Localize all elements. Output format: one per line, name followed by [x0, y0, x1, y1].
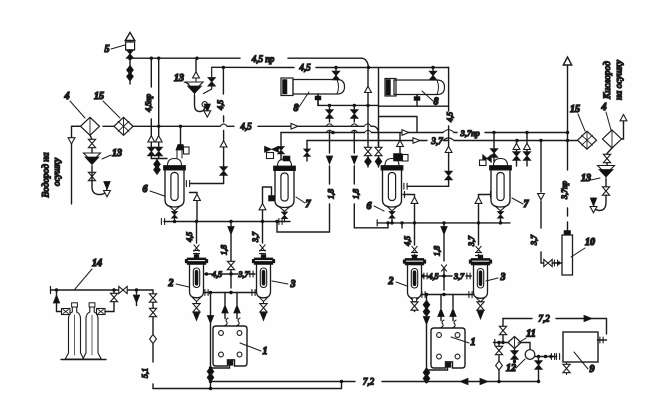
dryer vessel 7a: [274, 159, 296, 222]
gas bottle b: [83, 303, 101, 359]
tank 9 right flange: [598, 339, 607, 341]
filter vessel 3r: [469, 255, 492, 303]
valve column 7a x307: [306, 141, 308, 149]
node R4: [497, 380, 500, 383]
purge valve below node: [129, 59, 131, 84]
svg-text:4: 4: [601, 102, 607, 113]
node X6: [442, 293, 445, 296]
wire riser x152: [150, 58, 152, 136]
wire 5,1 column: [152, 290, 154, 389]
svg-text:10: 10: [585, 237, 595, 248]
wire 7,2 line: [211, 381, 539, 383]
arrow oxygen out up: [620, 115, 627, 121]
svg-text:4,5: 4,5: [299, 63, 311, 73]
node N3: [425, 368, 428, 371]
svg-text:4,5: 4,5: [446, 112, 455, 122]
relief 5 lower fitting: [129, 50, 131, 58]
wire 4,5 riser to 6b right nozzle: [448, 141, 450, 147]
valve column 7b x528: [526, 133, 528, 144]
svg-text:1,8: 1,8: [220, 245, 229, 255]
svg-text:12: 12: [506, 363, 516, 374]
node X2: [209, 291, 212, 294]
pump 12: [521, 343, 530, 350]
inlet valve on 6a: [180, 126, 182, 144]
valve x152: [148, 147, 155, 155]
wire riser to filter 3r: [479, 195, 490, 256]
node P2: [492, 131, 495, 134]
node R0: [497, 341, 500, 344]
wire riser x223: [222, 68, 224, 123]
drain 8a: [317, 94, 319, 105]
svg-text:14: 14: [92, 258, 102, 269]
svg-text:на осушку: на осушку: [615, 59, 625, 100]
arrow trap right: [590, 198, 596, 206]
check above separator 13 center: [193, 72, 200, 78]
black fitting on 7a dome: [283, 156, 290, 161]
wire riser to filter 2: [196, 222, 198, 255]
drain filter 2: [196, 302, 198, 305]
wire riser to filter 3: [262, 222, 264, 254]
pipe hop at x448 over 3,7: [443, 138, 454, 141]
node N1: [209, 366, 212, 369]
svg-text:3,7: 3,7: [453, 272, 465, 281]
wire header1 wrap to 1,8 riser: [277, 222, 330, 233]
node L1: [328, 104, 331, 107]
valve on 8a: [335, 68, 337, 80]
wire riser to filter 2r: [403, 195, 415, 256]
node P3: [525, 131, 528, 134]
dryer vessel 7b: [490, 159, 512, 222]
svg-text:3: 3: [500, 272, 506, 283]
electrolyser 1 right: [431, 328, 465, 368]
svg-text:13: 13: [581, 173, 591, 184]
inlet valve block 6b: [394, 154, 403, 162]
wire crossline lower left y=292.5: [204, 292, 257, 294]
wire loop left side x378: [378, 68, 380, 147]
wire notch link right: [427, 368, 448, 370]
check to dome 6a: [154, 160, 161, 169]
flow arrow on 3,7 line: [413, 138, 420, 144]
flow arrow right on main line: [291, 124, 298, 130]
svg-text:7: 7: [524, 199, 530, 210]
svg-text:6: 6: [367, 201, 372, 212]
svg-text:Кислород: Кислород: [602, 61, 613, 100]
purge valve 13 center: [208, 78, 215, 86]
drain column left x210: [210, 293, 212, 389]
vent arrow top right: [567, 66, 569, 133]
wire riser xb to header2: [354, 223, 388, 228]
svg-text:3,7: 3,7: [238, 270, 250, 279]
arrow hydrogen out down: [68, 138, 75, 144]
node below 11: [513, 360, 516, 363]
node M1: [157, 125, 160, 128]
svg-text:3,7: 3,7: [251, 231, 260, 243]
wire 7,2 recirculation top: [503, 319, 607, 335]
wire riser x223 lower: [223, 131, 225, 141]
wire 1,8 center drop left: [230, 222, 232, 289]
feed pipes electrolyser left: [225, 293, 237, 319]
pipe hops xa: [326, 124, 333, 133]
svg-text:осушку: осушку: [53, 157, 63, 186]
separator 13 right: [598, 166, 615, 180]
filter diamond 4 right: [603, 130, 622, 148]
svg-text:1,8: 1,8: [433, 246, 442, 256]
node H2b: [400, 221, 403, 224]
svg-text:2: 2: [388, 276, 394, 287]
node H1: [173, 220, 176, 223]
svg-text:4,5 пр: 4,5 пр: [252, 54, 275, 64]
ground line: [61, 359, 106, 361]
node N2: [209, 380, 212, 383]
svg-text:15: 15: [94, 91, 104, 102]
svg-text:4,5: 4,5: [212, 270, 222, 279]
svg-text:4,5: 4,5: [403, 236, 412, 246]
wire recirc left leg: [502, 319, 504, 343]
svg-text:Водород на: Водород на: [41, 152, 52, 197]
svg-text:1: 1: [471, 337, 476, 348]
inlet check 6b: [399, 133, 401, 141]
electrolyser 1 left: [213, 326, 247, 366]
drying column 10: [562, 235, 573, 275]
arrow left on 7,2 line: [460, 378, 468, 384]
wire hydrogen outlet corner: [72, 126, 81, 137]
node G1: [55, 288, 58, 291]
filter vessel 2: [185, 255, 208, 303]
arrow right on 7,2 line: [480, 378, 488, 384]
svg-text:7,2: 7,2: [538, 314, 550, 324]
node L2: [353, 104, 356, 107]
dryer vessel 6b: [381, 159, 403, 222]
svg-text:4,5: 4,5: [240, 121, 252, 131]
node A3: [195, 57, 198, 60]
wire 3,7 feed to 10: [541, 141, 544, 264]
node H9: [477, 221, 480, 224]
node X3: [229, 291, 232, 294]
receiver cylinder 8a: [281, 78, 293, 96]
purge riser from separator 13: [204, 67, 212, 93]
svg-text:8: 8: [294, 103, 299, 114]
relief box on 7b: [483, 155, 491, 162]
stub at 402: [401, 223, 403, 228]
node G2: [112, 288, 115, 291]
check column 7a left nozzle: [263, 187, 272, 222]
wire crossline upper left y=274: [205, 273, 256, 275]
svg-text:4,5пр: 4,5пр: [144, 94, 153, 112]
node A2: [157, 57, 160, 60]
check valve x223: [220, 141, 227, 147]
svg-text:11: 11: [526, 329, 535, 340]
wire drop to separator 13 center: [195, 58, 197, 72]
wire pump to tank 9: [535, 356, 557, 358]
wire 4,5 line B y=67.5: [212, 66, 294, 68]
node B2: [367, 66, 370, 69]
tank 9: [563, 332, 598, 362]
wire bottle b to manifold: [105, 290, 114, 312]
wire manifold to vessel 6a: [151, 159, 167, 161]
wire riser to dryer 10: [567, 133, 569, 231]
filter vessel 2r: [403, 255, 426, 303]
wire cylinder manifold y=290: [51, 289, 154, 291]
valve below 11: [514, 349, 516, 362]
flow arrow on 3,7pr line: [402, 130, 409, 136]
svg-text:3: 3: [290, 279, 296, 290]
wire bottom return line: [153, 382, 342, 389]
node P4: [566, 131, 569, 134]
node H4: [261, 220, 264, 223]
node X5: [425, 293, 428, 296]
valve column 7b x517: [516, 141, 518, 144]
valve below diamond 4 right: [607, 148, 612, 166]
receiver cylinder 8b: [385, 79, 396, 97]
drying column 10 cap: [564, 231, 571, 236]
wire 1,8 center drop right: [443, 223, 445, 290]
svg-text:7: 7: [306, 199, 312, 210]
node R3: [537, 380, 540, 383]
pipe hops xb: [351, 124, 358, 133]
valve column 6b x379: [378, 133, 380, 148]
arrow trap center: [204, 104, 210, 112]
node X0: [205, 272, 208, 275]
bottle b fitting: [97, 309, 106, 315]
valve below diamond 4: [90, 135, 92, 153]
nozzle block 7a: [269, 196, 276, 202]
trap center: [195, 96, 206, 112]
node H6: [390, 221, 393, 224]
svg-text:13: 13: [174, 73, 184, 84]
node under 5: [128, 57, 131, 60]
wire cylinder bottoms link y=105.5: [318, 95, 449, 106]
valve column 6b x367: [367, 93, 369, 148]
valve below separator right: [602, 187, 609, 195]
gas bottle a: [65, 303, 83, 359]
wire main 4,5 line y=126.3: [72, 125, 85, 127]
node at 10 inlet: [557, 261, 560, 264]
wire riser x538: [538, 357, 540, 382]
manifold valve: [119, 286, 127, 293]
svg-text:9: 9: [590, 364, 595, 375]
tank 9 left flange: [556, 354, 559, 360]
pipe hop at x448 over 3,7pr: [443, 130, 454, 133]
node Q1: [515, 139, 518, 142]
svg-text:7,2: 7,2: [363, 377, 375, 387]
valve x223: [220, 167, 227, 175]
arrow trap left: [104, 182, 110, 190]
wire 4,5pr header line A y=58: [130, 57, 240, 59]
node H10: [499, 221, 502, 224]
node H2: [195, 220, 198, 223]
node Q2: [539, 139, 542, 142]
svg-text:3,7: 3,7: [530, 234, 539, 246]
vent stub x140: [136, 290, 138, 294]
node P1: [331, 131, 334, 134]
wire oxygen outlet: [622, 121, 624, 139]
svg-text:2: 2: [168, 278, 174, 289]
svg-text:5,1: 5,1: [141, 368, 150, 378]
svg-text:5: 5: [105, 44, 110, 55]
wire header2: [377, 222, 510, 224]
svg-text:3,7: 3,7: [467, 235, 476, 247]
node H5: [275, 220, 278, 223]
separator 13 left: [84, 153, 101, 167]
check valve x161: [155, 136, 162, 142]
wire 3,7pr line y=132.5: [281, 132, 568, 134]
relief valve 5 vent triangle: [125, 33, 135, 41]
filter diamond 4 left: [81, 117, 100, 135]
drain filter 2r: [412, 298, 416, 302]
svg-text:4: 4: [64, 91, 70, 102]
check column 6a right: [190, 193, 198, 222]
node H2a: [386, 221, 389, 224]
pipe hops xc: [364, 124, 372, 133]
node H7: [413, 221, 416, 224]
node bottom: [209, 387, 212, 390]
svg-text:4,5: 4,5: [185, 232, 194, 242]
drain filter 3r: [480, 301, 482, 303]
svg-text:13: 13: [112, 148, 122, 159]
arrow right on recirc: [584, 315, 592, 321]
relief valve 5 body: [126, 42, 135, 50]
relief box on 7a: [265, 146, 279, 152]
flange at 10 inlet: [554, 260, 557, 266]
wire crossline lower right y=294.5: [421, 294, 474, 296]
svg-text:3,7пр: 3,7пр: [560, 181, 569, 200]
wire bottle a to manifold: [57, 290, 62, 312]
node B3: [431, 66, 434, 69]
node A1: [150, 57, 153, 60]
wire to flange left: [494, 342, 509, 344]
flange header2 start: [376, 220, 378, 226]
wire 1,8 riser xa down: [329, 105, 331, 232]
svg-text:15: 15: [570, 104, 580, 115]
svg-text:6: 6: [143, 184, 148, 195]
valve column 7a left x281: [280, 133, 282, 147]
wire notch link left: [211, 366, 230, 368]
flange end header1: [279, 219, 282, 225]
drain filter 3: [263, 302, 265, 305]
drain trap left: [92, 181, 107, 195]
valve column 7b x494: [493, 133, 495, 149]
wire crossline upper right y=276: [424, 275, 472, 277]
wire header1: [164, 221, 290, 223]
drain riser x499: [498, 343, 500, 382]
feed pipes electrolyser right: [441, 295, 453, 321]
valve on 8b: [432, 68, 434, 81]
node N4: [425, 380, 428, 383]
svg-text:1: 1: [263, 346, 268, 357]
trap center float: [202, 102, 207, 107]
wire to vessel 6a nozzle: [190, 183, 224, 185]
node X4: [442, 274, 445, 277]
drain column right x427: [426, 295, 428, 382]
valve below separator 13 left: [88, 172, 95, 180]
filter diamond 15 left: [114, 117, 133, 135]
node B0: [222, 66, 225, 69]
svg-text:3,7пр: 3,7пр: [459, 128, 479, 138]
drain 8b: [416, 95, 418, 100]
node L3: [366, 104, 369, 107]
node R2: [537, 355, 540, 358]
svg-text:3,7: 3,7: [430, 136, 443, 146]
filter diamond 11: [508, 337, 521, 349]
stub 6b drain: [391, 219, 393, 223]
svg-text:4,5: 4,5: [216, 100, 225, 110]
wire stub y=116: [379, 117, 418, 133]
svg-text:1,8: 1,8: [351, 189, 360, 199]
separator 13 center: [186, 82, 203, 96]
node B1: [334, 66, 337, 69]
filter diamond 15 right: [578, 131, 597, 149]
check valve x152: [148, 136, 155, 142]
node X1: [229, 272, 232, 275]
node H8: [442, 221, 445, 224]
wire 3,7 line y=140.5: [307, 140, 577, 142]
svg-text:1,8: 1,8: [327, 189, 336, 199]
wire riser x161: [158, 58, 160, 136]
bottle a fitting: [62, 309, 71, 315]
node R1: [501, 341, 504, 344]
node H3: [229, 220, 232, 223]
node M2: [179, 125, 182, 128]
node G3: [135, 288, 138, 291]
wire 1,8 riser xb down: [353, 105, 355, 227]
dryer vessel 6a: [164, 159, 186, 222]
svg-text:8: 8: [434, 97, 439, 108]
filter vessel 3: [252, 255, 275, 303]
node F1: [340, 380, 343, 383]
stub 7b drain: [500, 220, 502, 223]
svg-text:4,5: 4,5: [429, 272, 439, 281]
valve x161: [155, 147, 162, 155]
trap right: [594, 195, 607, 210]
wire cyl8b drain: [416, 95, 418, 106]
tank 9 drain valve: [566, 362, 568, 375]
